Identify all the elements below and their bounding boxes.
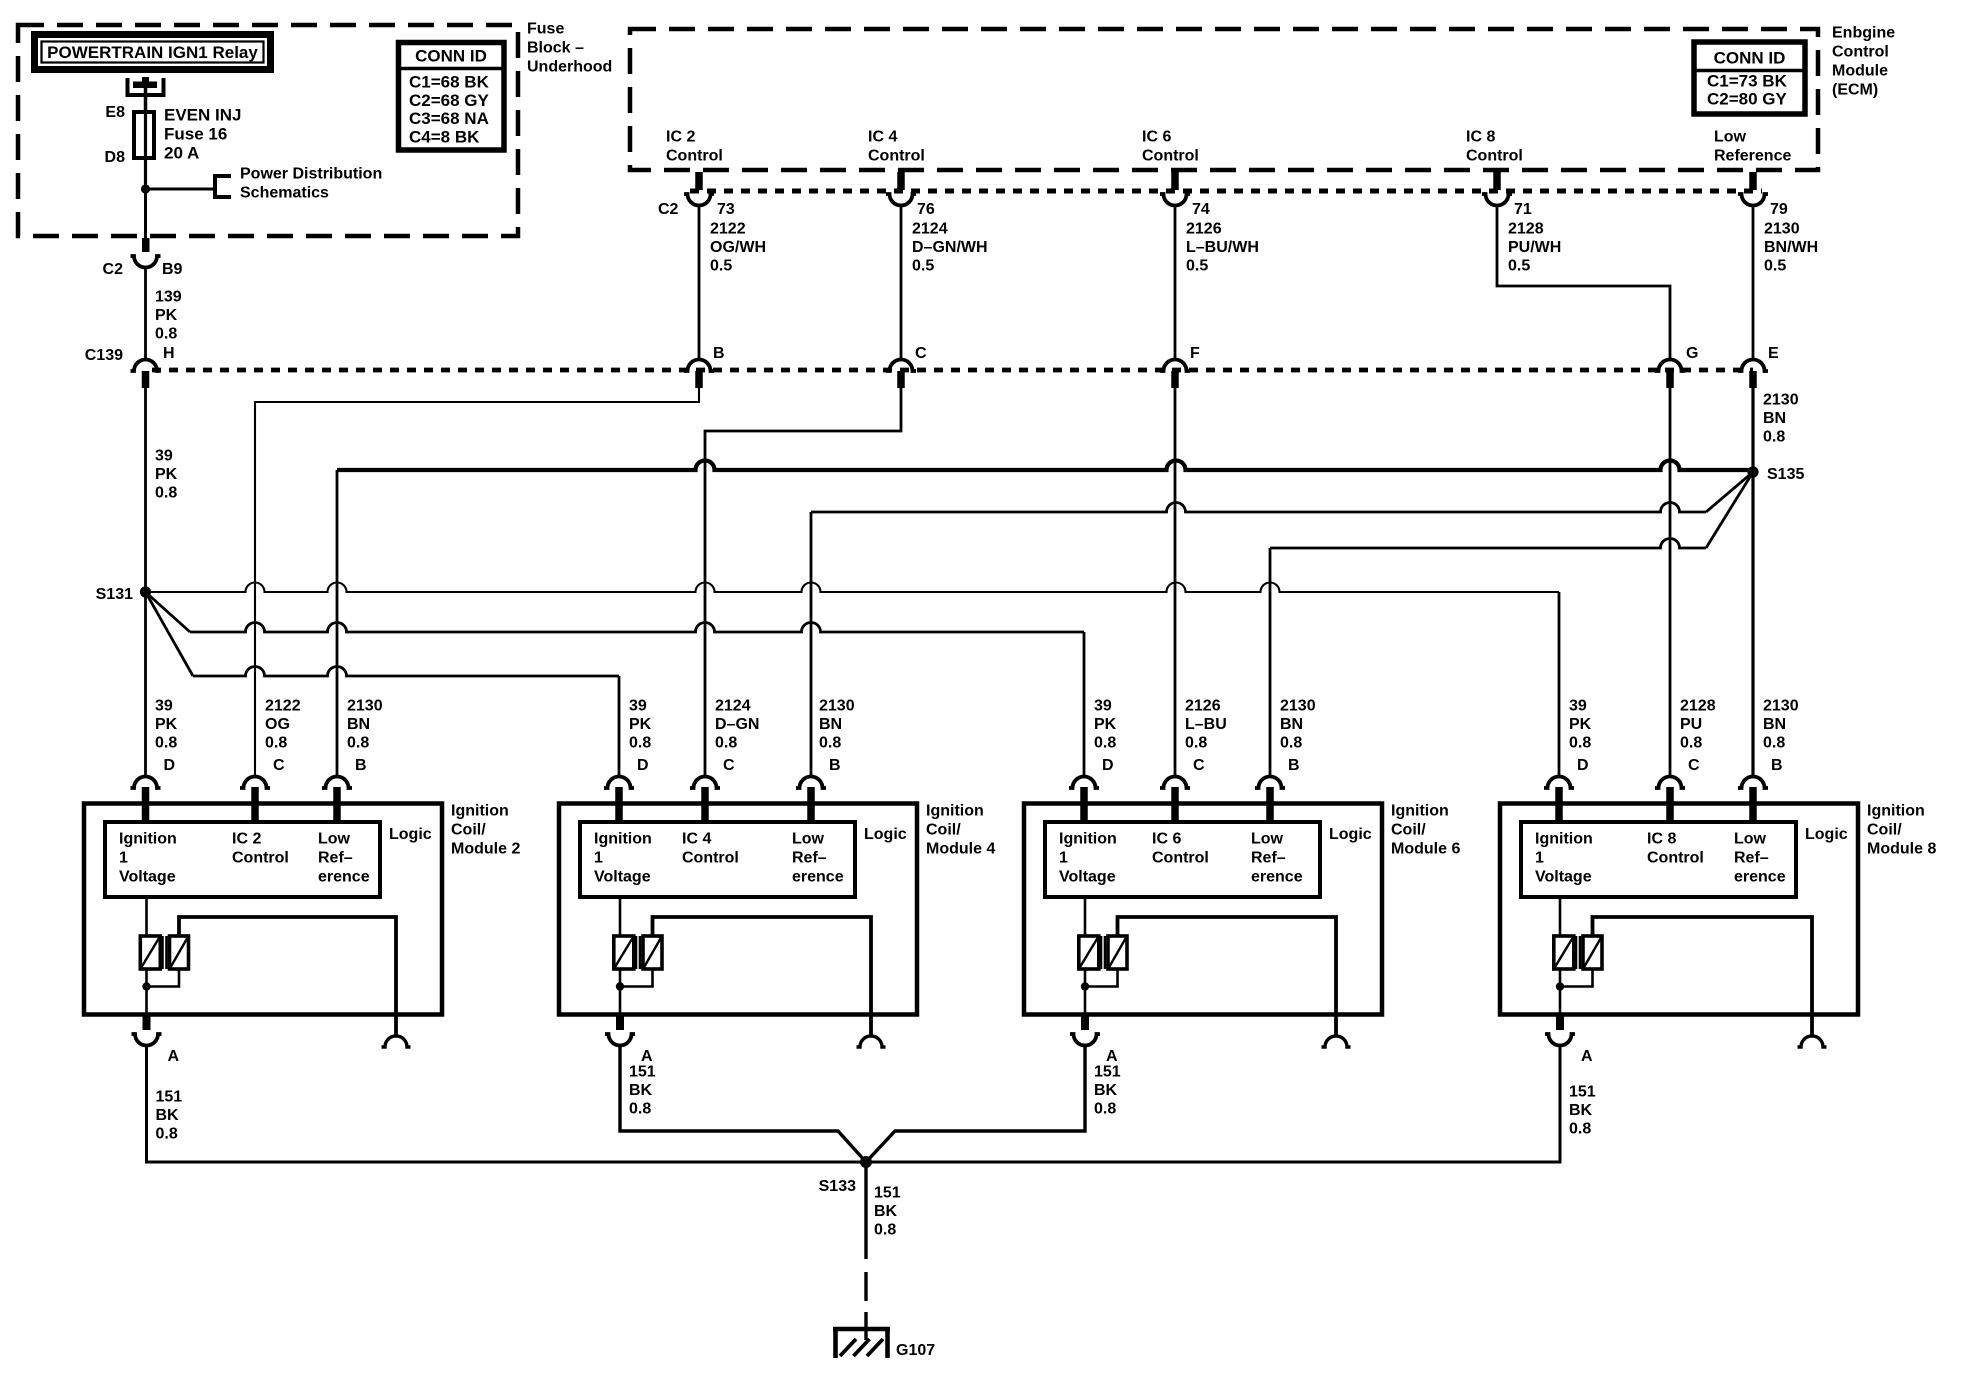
module 2 pin A: female terminal	[132, 1034, 162, 1046]
wire 2130 BN 0.8 (C139 E down to S135)	[1751, 387, 1754, 472]
svg-text:Reference: Reference	[1714, 148, 1791, 165]
svg-text:C139: C139	[85, 347, 123, 364]
svg-text:C: C	[723, 757, 735, 774]
module 4 pin A: male stub	[616, 1014, 624, 1030]
ground G107 symbol	[833, 1327, 890, 1332]
module 8 pin D: female terminal	[1544, 777, 1574, 788]
svg-text:2124: 2124	[715, 698, 751, 715]
module 6 pin A: female terminal	[1070, 1034, 1100, 1046]
module 8 pin A: female terminal	[1545, 1034, 1575, 1046]
svg-text:0.8: 0.8	[1569, 1121, 1591, 1138]
svg-text:CONN ID: CONN ID	[1714, 49, 1786, 68]
module 2 coil core	[161, 936, 164, 969]
svg-text:Control: Control	[232, 850, 289, 867]
splice S135	[1747, 466, 1758, 477]
svg-text:39: 39	[629, 698, 647, 715]
svg-text:C1=68 BK: C1=68 BK	[409, 73, 490, 92]
svg-text:IC 2: IC 2	[666, 129, 695, 146]
svg-text:PU/WH: PU/WH	[1508, 239, 1561, 256]
svg-text:2126: 2126	[1185, 698, 1221, 715]
wire 2124 D-GN/WH 0.5 (IC4 to C139 C)	[900, 205, 903, 361]
svg-text:39: 39	[1094, 698, 1112, 715]
wire 151 BK module 6 A to S133	[866, 1045, 1085, 1162]
module 2 secondary output terminal	[382, 1036, 411, 1047]
wire 39 PK bus S2 (S131 to module 6 D)	[146, 592, 191, 632]
C139 pin F: male stub	[1171, 371, 1179, 388]
svg-text:0.8: 0.8	[629, 735, 651, 752]
module 8 secondary output wire	[1593, 917, 1813, 1036]
svg-text:D: D	[164, 757, 176, 774]
svg-text:PK: PK	[629, 716, 652, 733]
svg-text:D: D	[1577, 757, 1589, 774]
svg-text:B: B	[355, 757, 367, 774]
svg-text:2130: 2130	[1763, 392, 1799, 409]
svg-text:1: 1	[1059, 850, 1068, 867]
wire 139 PK 0.8 from fuse block to C139	[144, 267, 147, 361]
svg-text:Ref–: Ref–	[1734, 850, 1769, 867]
module 4 pin C: female terminal	[690, 777, 720, 788]
C139 pin C: male stub	[897, 371, 905, 388]
ignition coil module 4: logic inner box	[580, 822, 855, 897]
svg-text:39: 39	[155, 448, 173, 465]
svg-text:0.8: 0.8	[874, 1222, 896, 1239]
svg-text:IC 2: IC 2	[232, 831, 261, 848]
svg-text:B: B	[1771, 757, 1783, 774]
svg-text:Fuse: Fuse	[527, 21, 564, 38]
svg-text:151: 151	[156, 1089, 183, 1106]
svg-text:BN: BN	[1763, 716, 1786, 733]
svg-text:2128: 2128	[1680, 698, 1716, 715]
ignition coil module 4: outer box	[559, 804, 917, 1015]
svg-text:0.8: 0.8	[155, 735, 177, 752]
svg-text:Voltage: Voltage	[1059, 869, 1116, 886]
svg-text:0.8: 0.8	[1094, 1101, 1116, 1118]
svg-text:PU: PU	[1680, 716, 1702, 733]
svg-text:0.8: 0.8	[819, 735, 841, 752]
svg-text:Ignition: Ignition	[1535, 831, 1593, 848]
module 8 coil core	[1575, 936, 1578, 969]
wire 139 fuse output down to C2 connector	[144, 189, 147, 240]
ECM connector pin IC8: female terminal	[1482, 194, 1512, 206]
svg-text:Coil/: Coil/	[451, 822, 486, 839]
svg-text:C: C	[1193, 757, 1205, 774]
svg-text:A: A	[1581, 1048, 1593, 1065]
svg-text:D8: D8	[105, 149, 126, 166]
svg-text:BN: BN	[1763, 410, 1786, 427]
svg-text:0.8: 0.8	[1569, 735, 1591, 752]
svg-text:A: A	[641, 1048, 653, 1065]
ECM connector pin IC4: male stub	[897, 172, 905, 190]
ECM connector pin IC6: female terminal	[1160, 194, 1190, 206]
module 6 pin A: male stub	[1081, 1014, 1089, 1030]
svg-text:2128: 2128	[1508, 221, 1544, 238]
svg-text:Logic: Logic	[864, 826, 907, 843]
module 4 pin A: female terminal	[605, 1034, 635, 1046]
low reference branch R2 (module 4 B to S135)	[810, 512, 813, 777]
svg-text:Module 8: Module 8	[1867, 841, 1936, 858]
module 6 pin B: male stub into logic box	[1266, 787, 1274, 824]
svg-text:C: C	[1688, 757, 1700, 774]
module 8 pin B: male stub into logic box	[1749, 787, 1757, 824]
svg-text:2130: 2130	[1763, 698, 1799, 715]
C139 pin G: male stub	[1666, 371, 1674, 388]
wire 151 BK module 4 A to S133	[620, 1045, 866, 1162]
wire 39 PK 0.8 from C139 H down to S131	[144, 387, 147, 592]
svg-text:Enbgine: Enbgine	[1832, 25, 1895, 42]
svg-text:1: 1	[594, 850, 603, 867]
svg-text:L–BU/WH: L–BU/WH	[1186, 239, 1259, 256]
svg-text:139: 139	[155, 289, 182, 306]
svg-text:BN: BN	[819, 716, 842, 733]
svg-text:2130: 2130	[1280, 698, 1316, 715]
svg-text:1: 1	[119, 850, 128, 867]
svg-text:151: 151	[629, 1064, 656, 1081]
ignition coil module 6: logic inner box	[1045, 822, 1320, 897]
module 8 pin B: female terminal	[1738, 777, 1768, 788]
svg-text:D–GN/WH: D–GN/WH	[912, 239, 988, 256]
svg-text:0.8: 0.8	[715, 735, 737, 752]
ignition coil module 2: logic inner box	[105, 822, 380, 897]
svg-text:39: 39	[155, 698, 173, 715]
module 4 coil core	[635, 936, 638, 969]
svg-text:PK: PK	[155, 466, 178, 483]
svg-text:Control: Control	[666, 148, 723, 165]
svg-text:0.5: 0.5	[1764, 258, 1786, 275]
module 4 coil primary winding	[619, 897, 622, 936]
svg-text:0.8: 0.8	[1185, 735, 1207, 752]
svg-text:Ignition: Ignition	[594, 831, 652, 848]
svg-text:S135: S135	[1767, 466, 1804, 483]
C139 pin E: female terminal	[1738, 360, 1768, 371]
svg-text:Low: Low	[1714, 129, 1747, 146]
ECM connector pin IC6: male stub	[1171, 172, 1179, 190]
svg-text:Ignition: Ignition	[451, 803, 509, 820]
wire to power distribution reference	[146, 188, 214, 191]
ECM connector pin LowRef: female terminal	[1738, 194, 1768, 206]
svg-text:B9: B9	[162, 261, 183, 278]
C139 pin H: female terminal	[131, 360, 161, 371]
module 2 secondary output wire	[179, 917, 396, 1036]
module 6 secondary output terminal	[1322, 1036, 1351, 1047]
svg-text:BK: BK	[629, 1082, 653, 1099]
svg-text:IC 4: IC 4	[868, 129, 897, 146]
svg-text:IC 8: IC 8	[1466, 129, 1495, 146]
svg-text:0.8: 0.8	[155, 485, 177, 502]
ECM C2 connector row (dotted)	[690, 189, 1762, 194]
svg-text:Schematics: Schematics	[240, 184, 329, 201]
module 8 pin C: female terminal	[1655, 777, 1685, 788]
module 8 coil secondary winding	[1583, 936, 1602, 969]
svg-text:erence: erence	[318, 869, 370, 886]
svg-text:0.8: 0.8	[155, 326, 177, 343]
svg-text:BN: BN	[1280, 716, 1303, 733]
module 4 pin D: female terminal	[604, 777, 634, 788]
svg-text:Ref–: Ref–	[792, 850, 827, 867]
wire 39 PK down to module 2 D	[144, 592, 147, 777]
svg-text:D–GN: D–GN	[715, 716, 759, 733]
wire 2130 BN/WH 0.5 (Low Reference to C139 E)	[1752, 205, 1755, 361]
svg-text:2122: 2122	[710, 221, 746, 238]
svg-text:OG: OG	[265, 716, 290, 733]
module 4 pin B: male stub into logic box	[807, 787, 815, 824]
wire 2128 PU/WH 0.5 (IC8 to C139 G, jog)	[1497, 205, 1670, 361]
svg-text:Voltage: Voltage	[594, 869, 651, 886]
wire 2124 D-GN 0.8 (C139 C jog to module 4 C)	[705, 387, 901, 777]
ECM connector pin IC2: male stub	[695, 172, 703, 190]
svg-text:B: B	[1288, 757, 1300, 774]
inline connector C139 row (dotted)	[152, 368, 1753, 373]
svg-text:B: B	[713, 345, 725, 362]
svg-text:BK: BK	[156, 1107, 180, 1124]
svg-text:2130: 2130	[819, 698, 855, 715]
C139 pin G: female terminal	[1655, 360, 1685, 371]
svg-text:0.8: 0.8	[629, 1101, 651, 1118]
svg-text:Low: Low	[318, 831, 351, 848]
svg-text:F: F	[1190, 345, 1200, 362]
svg-text:0.5: 0.5	[1186, 258, 1208, 275]
svg-text:151: 151	[874, 1185, 901, 1202]
module 8 coil primary winding	[1559, 897, 1562, 936]
module 2 pin B: female terminal	[322, 777, 352, 788]
svg-text:Coil/: Coil/	[926, 822, 961, 839]
module 2 pin B: male stub into logic box	[333, 787, 341, 824]
svg-text:C: C	[273, 757, 285, 774]
svg-text:Logic: Logic	[389, 826, 432, 843]
module 6 pin B: female terminal	[1255, 777, 1285, 788]
svg-text:151: 151	[1094, 1064, 1121, 1081]
svg-text:Logic: Logic	[1329, 826, 1372, 843]
svg-text:Underhood: Underhood	[527, 59, 612, 76]
svg-text:151: 151	[1569, 1084, 1596, 1101]
module 2 pin C: male stub into logic box	[251, 787, 259, 824]
svg-text:39: 39	[1569, 698, 1587, 715]
svg-text:0.5: 0.5	[710, 258, 732, 275]
module 6 coil core	[1100, 936, 1103, 969]
svg-text:BN: BN	[347, 716, 370, 733]
svg-text:Logic: Logic	[1805, 826, 1848, 843]
wire from relay to fuse	[144, 86, 148, 114]
module 2 primary return to pin A	[145, 969, 148, 1014]
wire 151 BK module 2 A to S133	[147, 1045, 867, 1162]
svg-text:IC 6: IC 6	[1142, 129, 1171, 146]
module 4 pin D: male stub into logic box	[615, 787, 623, 824]
svg-text:POWERTRAIN IGN1 Relay: POWERTRAIN IGN1 Relay	[47, 43, 258, 62]
svg-text:Ignition: Ignition	[1391, 803, 1449, 820]
svg-text:Module: Module	[1832, 63, 1888, 80]
module 6 pin C: male stub into logic box	[1171, 787, 1179, 824]
svg-text:Coil/: Coil/	[1391, 822, 1426, 839]
svg-text:L–BU: L–BU	[1185, 716, 1227, 733]
svg-text:Control: Control	[1142, 148, 1199, 165]
svg-text:Voltage: Voltage	[119, 869, 176, 886]
svg-text:Control: Control	[1647, 850, 1704, 867]
module 8 pin D: male stub into logic box	[1555, 787, 1563, 824]
module 4 pin B: female terminal	[796, 777, 826, 788]
ignition coil module 8: outer box	[1500, 804, 1858, 1015]
C139 pin C: female terminal	[886, 360, 916, 371]
module 6 primary return to pin A	[1084, 969, 1087, 1014]
ECM connector pin IC8: male stub	[1493, 172, 1501, 190]
svg-text:0.8: 0.8	[265, 735, 287, 752]
svg-text:Low: Low	[1734, 831, 1767, 848]
module 4 secondary output wire	[653, 917, 872, 1036]
wire 2130 BN 0.8 (S135 down to module 8 B)	[1751, 472, 1754, 777]
svg-text:PK: PK	[155, 716, 178, 733]
ECM dashed enclosure	[630, 29, 1818, 170]
svg-text:0.8: 0.8	[156, 1126, 178, 1143]
wire 2128 PU 0.8 (C139 G to module 8 C)	[1669, 387, 1672, 777]
svg-text:OG/WH: OG/WH	[710, 239, 766, 256]
svg-text:H: H	[163, 345, 175, 362]
fuse F16: EVEN INJ Fuse 16 20 A	[134, 112, 154, 158]
svg-text:71: 71	[1514, 201, 1532, 218]
svg-text:79: 79	[1770, 201, 1788, 218]
dashed wire segment to G107	[864, 1272, 867, 1301]
svg-text:Ignition: Ignition	[926, 803, 984, 820]
svg-text:Fuse 16: Fuse 16	[164, 124, 227, 143]
svg-text:PK: PK	[155, 307, 178, 324]
C139 pin B: female terminal	[684, 360, 714, 371]
svg-text:C1=73 BK: C1=73 BK	[1707, 72, 1788, 91]
svg-text:Ref–: Ref–	[318, 850, 353, 867]
svg-text:Control: Control	[1152, 850, 1209, 867]
wire 151 BK 0.8 from S133 to ground	[864, 1162, 867, 1259]
svg-text:IC 6: IC 6	[1152, 831, 1181, 848]
relay K: POWERTRAIN IGN1 Relay title box	[35, 35, 271, 70]
wire 2126 L-BU 0.8 (C139 F to module 6 C)	[1174, 387, 1177, 777]
svg-text:BK: BK	[874, 1203, 898, 1220]
svg-text:erence: erence	[792, 869, 844, 886]
svg-text:C2: C2	[658, 201, 679, 218]
svg-text:0.8: 0.8	[1763, 735, 1785, 752]
svg-text:0.8: 0.8	[1763, 429, 1785, 446]
svg-text:Ref–: Ref–	[1251, 850, 1286, 867]
svg-text:C: C	[915, 345, 927, 362]
svg-text:0.8: 0.8	[1280, 735, 1302, 752]
svg-text:C2=80 GY: C2=80 GY	[1707, 90, 1788, 109]
svg-text:Voltage: Voltage	[1535, 869, 1592, 886]
module 4 primary return to pin A	[619, 969, 622, 1014]
module 4 coil secondary winding	[643, 936, 662, 969]
svg-text:2130: 2130	[1764, 221, 1800, 238]
svg-text:0.5: 0.5	[912, 258, 934, 275]
module 6 secondary output wire	[1118, 917, 1337, 1036]
svg-text:Ignition: Ignition	[1867, 803, 1925, 820]
low reference branch R3 (module 6 B to S135)	[1269, 548, 1272, 777]
ignition coil module 8: logic inner box	[1521, 822, 1796, 897]
svg-text:C2=68 GY: C2=68 GY	[409, 91, 490, 110]
ECM CONN ID table	[1694, 42, 1805, 114]
svg-text:IC 8: IC 8	[1647, 831, 1676, 848]
wire 151 BK module 8 A to S133	[866, 1045, 1560, 1162]
svg-text:PK: PK	[1569, 716, 1592, 733]
module 2 pin A: male stub	[143, 1014, 151, 1030]
svg-text:IC 4: IC 4	[682, 831, 711, 848]
svg-text:PK: PK	[1094, 716, 1117, 733]
wire 39 PK bus S3 (S131 to module 4 D)	[146, 592, 194, 676]
wire 2122 OG 0.8 (C139 B jog to module 2 C)	[255, 387, 699, 777]
module 8 primary return to pin A	[1559, 969, 1562, 1014]
C139 pin B: male stub	[695, 371, 703, 388]
svg-text:0.8: 0.8	[1680, 735, 1702, 752]
svg-text:Coil/: Coil/	[1867, 822, 1902, 839]
relay contact terminal symbol	[128, 78, 164, 95]
reference bracket: Power Distribution Schematics	[215, 176, 231, 197]
module 2 coil primary winding	[145, 897, 148, 936]
splice S133	[860, 1156, 872, 1168]
svg-text:erence: erence	[1251, 869, 1303, 886]
module 8 pin C: male stub into logic box	[1666, 787, 1674, 824]
C139 pin E: male stub	[1749, 371, 1757, 388]
svg-text:E: E	[1768, 345, 1779, 362]
svg-text:BK: BK	[1569, 1102, 1593, 1119]
fuse block CONN ID table	[399, 43, 505, 151]
svg-text:Block –: Block –	[527, 40, 584, 57]
splice S131	[140, 586, 151, 597]
svg-text:B: B	[829, 757, 841, 774]
ECM connector pin LowRef: male stub	[1749, 172, 1757, 190]
svg-text:Module 6: Module 6	[1391, 841, 1460, 858]
module 6 pin D: female terminal	[1069, 777, 1099, 788]
svg-text:0.5: 0.5	[1508, 258, 1530, 275]
svg-text:G107: G107	[896, 1342, 935, 1359]
svg-text:Low: Low	[1251, 831, 1284, 848]
svg-text:73: 73	[717, 201, 735, 218]
ignition coil module 6: outer box	[1024, 804, 1382, 1015]
svg-text:Power Distribution: Power Distribution	[240, 166, 382, 183]
module 6 coil primary winding	[1084, 897, 1087, 936]
low reference bus L1 (module 2 B to S135)	[336, 470, 339, 777]
svg-text:Control: Control	[868, 148, 925, 165]
svg-text:Ignition: Ignition	[1059, 831, 1117, 848]
module 6 pin D: male stub into logic box	[1080, 787, 1088, 824]
svg-text:74: 74	[1192, 201, 1210, 218]
svg-text:S131: S131	[96, 586, 133, 603]
svg-text:C4=8 BK: C4=8 BK	[409, 128, 480, 147]
svg-text:(ECM): (ECM)	[1832, 82, 1878, 99]
svg-text:A: A	[168, 1048, 180, 1065]
wire 2126 L-BU/WH 0.5 (IC6 to C139 F)	[1174, 205, 1177, 361]
ignition coil module 2: outer box	[84, 804, 442, 1015]
svg-text:Module 4: Module 4	[926, 841, 995, 858]
svg-text:CONN ID: CONN ID	[415, 47, 487, 66]
svg-text:BN/WH: BN/WH	[1764, 239, 1818, 256]
svg-text:Control: Control	[1832, 44, 1889, 61]
module 2 pin D: female terminal	[131, 777, 161, 788]
svg-text:C2: C2	[103, 261, 124, 278]
module 4 pin C: male stub into logic box	[701, 787, 709, 824]
svg-text:C3=68 NA: C3=68 NA	[409, 109, 489, 128]
junction node on fuse output	[141, 184, 150, 193]
svg-text:2130: 2130	[347, 698, 383, 715]
module 8 pin A: male stub	[1556, 1014, 1564, 1030]
svg-text:Low: Low	[792, 831, 825, 848]
ECM connector pin IC2: female terminal	[684, 194, 714, 206]
svg-text:S133: S133	[819, 1178, 856, 1195]
C139 pin F: female terminal	[1160, 360, 1190, 371]
svg-text:EVEN INJ: EVEN INJ	[164, 105, 241, 124]
connector C2 pin B9 (fuse block output)	[142, 238, 150, 252]
svg-text:G: G	[1686, 345, 1698, 362]
svg-text:Module 2: Module 2	[451, 841, 520, 858]
module 6 pin C: female terminal	[1160, 777, 1190, 788]
svg-text:2126: 2126	[1186, 221, 1222, 238]
svg-text:erence: erence	[1734, 869, 1786, 886]
module 2 pin C: female terminal	[240, 777, 270, 788]
svg-text:BK: BK	[1094, 1082, 1118, 1099]
module 2 pin D: male stub into logic box	[142, 787, 150, 824]
svg-text:2122: 2122	[265, 698, 301, 715]
